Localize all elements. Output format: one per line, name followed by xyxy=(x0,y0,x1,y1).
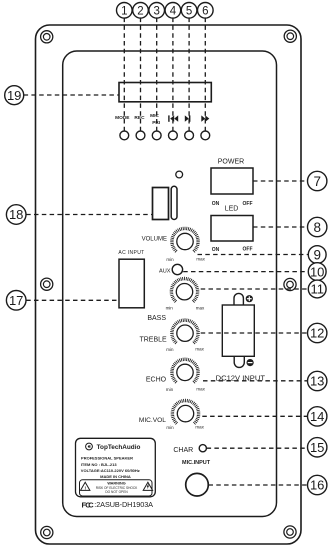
svg-text:MIC.INPUT: MIC.INPUT xyxy=(182,460,211,466)
DC plus terminal xyxy=(246,295,253,302)
knob ECHO xyxy=(170,358,200,384)
leader line 5 xyxy=(188,18,190,131)
leader line 1 xyxy=(123,18,125,131)
leader line 17 xyxy=(26,299,119,301)
push button 5 xyxy=(185,131,194,140)
svg-text:13: 13 xyxy=(310,374,324,389)
leader line 19 xyxy=(24,94,119,96)
svg-text:12: 12 xyxy=(310,326,324,341)
callout 14 xyxy=(308,407,327,426)
control button bar xyxy=(119,83,211,102)
svg-text:min: min xyxy=(166,425,174,430)
icon play xyxy=(185,115,191,121)
knob TREBLE xyxy=(170,318,200,344)
callout 5 xyxy=(181,3,197,19)
push button 4 xyxy=(169,131,178,140)
svg-text:max: max xyxy=(196,305,205,310)
svg-text:TopTechAudio: TopTechAudio xyxy=(97,444,141,451)
svg-text:MADE IN CHINA: MADE IN CHINA xyxy=(100,474,131,479)
leader line 11 xyxy=(201,288,308,290)
callout 19 xyxy=(5,86,24,105)
leader line 13 xyxy=(203,380,308,382)
icon previous track xyxy=(168,115,178,121)
USB port xyxy=(153,188,169,220)
callout 16 xyxy=(308,475,327,494)
leader line 15 xyxy=(207,447,308,449)
callout 6 xyxy=(198,3,214,19)
leader line 10 xyxy=(183,271,307,273)
svg-text:17: 17 xyxy=(9,293,23,308)
MIC INPUT jack xyxy=(186,473,209,496)
svg-text:DO NOT OPEN: DO NOT OPEN xyxy=(105,490,128,494)
callout 11 xyxy=(308,280,326,298)
callout 12 xyxy=(308,323,327,342)
svg-text:7: 7 xyxy=(313,174,321,189)
svg-text:11: 11 xyxy=(310,282,324,297)
svg-text:PROFESSIONAL SPEAKER: PROFESSIONAL SPEAKER xyxy=(81,456,133,461)
svg-text:min: min xyxy=(166,347,174,352)
svg-text:5: 5 xyxy=(186,5,192,17)
callout 3 xyxy=(149,3,165,19)
warning triangle left xyxy=(80,482,89,490)
leader line 7 xyxy=(253,180,308,182)
svg-text:TREBLE: TREBLE xyxy=(139,337,167,344)
leader line 8 xyxy=(253,226,308,228)
callout 2 xyxy=(133,3,149,19)
svg-text:AUX: AUX xyxy=(159,269,171,275)
svg-text:10: 10 xyxy=(310,264,324,279)
svg-text:POWER: POWER xyxy=(218,159,244,166)
leader line 2 xyxy=(140,18,142,131)
svg-text:16: 16 xyxy=(310,478,324,493)
knob VOLUME xyxy=(170,227,200,253)
leader line 14 xyxy=(202,415,308,417)
callout 4 xyxy=(165,3,181,19)
svg-text:PRI: PRI xyxy=(152,120,161,126)
callout 17 xyxy=(6,291,26,311)
warning box xyxy=(80,480,153,496)
push button 2 xyxy=(136,131,145,140)
svg-text:LED: LED xyxy=(225,206,239,213)
svg-text:max: max xyxy=(195,347,204,352)
svg-text:CHAR: CHAR xyxy=(173,447,193,454)
svg-text:max: max xyxy=(195,425,204,430)
leader line 16 xyxy=(209,484,309,486)
svg-text:min: min xyxy=(166,306,174,311)
svg-text:9: 9 xyxy=(313,247,321,262)
svg-text:OFF: OFF xyxy=(243,201,253,207)
icon next track xyxy=(201,115,209,121)
TopTech Audio logo xyxy=(86,443,93,450)
svg-text:BASS: BASS xyxy=(147,315,166,322)
indicator LED xyxy=(176,171,183,178)
push button 3 xyxy=(152,131,161,140)
svg-text:MIC: MIC xyxy=(150,113,159,119)
DC minus terminal xyxy=(247,359,254,366)
callout 15 xyxy=(308,438,327,457)
svg-text:AC INPUT: AC INPUT xyxy=(118,250,144,256)
CHAR LED xyxy=(199,445,206,452)
svg-text:2: 2 xyxy=(137,5,143,17)
knob BASS xyxy=(170,277,200,303)
svg-text:REC: REC xyxy=(134,115,145,121)
mounting screw 4 xyxy=(284,278,296,290)
svg-text:14: 14 xyxy=(310,409,324,424)
callout 7 xyxy=(308,171,327,190)
svg-text:VOLTAGE:AC110-220V 60/50Hz: VOLTAGE:AC110-220V 60/50Hz xyxy=(81,468,140,473)
leader line 12 xyxy=(201,332,308,334)
push button 1 xyxy=(120,131,129,140)
leader line 4 xyxy=(172,18,174,131)
svg-text:19: 19 xyxy=(7,88,21,103)
svg-text:MODE: MODE xyxy=(115,115,130,121)
label MIC PRI xyxy=(150,113,161,126)
svg-text:max: max xyxy=(196,257,205,262)
callout 9 xyxy=(308,246,326,264)
mounting screw 3 xyxy=(41,278,53,290)
svg-text:ON: ON xyxy=(212,201,220,207)
svg-text:ITEM NO : BJL-213: ITEM NO : BJL-213 xyxy=(81,462,118,467)
amplifier inner plate xyxy=(63,51,277,517)
svg-text:OFF: OFF xyxy=(243,247,253,253)
svg-text:max: max xyxy=(196,387,205,392)
AC INPUT socket xyxy=(119,259,144,308)
LED switch xyxy=(211,216,253,242)
push button 6 xyxy=(201,131,210,140)
svg-text:min: min xyxy=(166,387,174,392)
svg-text:6: 6 xyxy=(202,5,208,17)
mounting screw 1 xyxy=(41,31,53,43)
svg-text:ECHO: ECHO xyxy=(146,377,167,384)
svg-text:1: 1 xyxy=(121,5,127,17)
svg-text:4: 4 xyxy=(170,5,177,17)
callout 10 xyxy=(308,263,326,281)
svg-text:3: 3 xyxy=(153,5,159,17)
warning triangle right xyxy=(143,482,152,490)
mounting screw 6 xyxy=(284,526,296,538)
POWER switch xyxy=(211,168,253,194)
FCC ID text xyxy=(82,500,154,509)
SD card slot xyxy=(171,186,177,219)
svg-text:min: min xyxy=(166,257,174,262)
svg-text::2ASUB-DH1903A: :2ASUB-DH1903A xyxy=(94,500,153,509)
mounting screw 2 xyxy=(284,30,296,42)
svg-text:15: 15 xyxy=(310,440,324,455)
svg-text:8: 8 xyxy=(313,220,321,235)
brand label box xyxy=(76,438,156,497)
speaker back panel outer plate xyxy=(36,25,302,544)
mounting screw 5 xyxy=(41,526,53,538)
callout 1 xyxy=(117,3,133,19)
leader line 6 xyxy=(204,18,206,131)
AUX jack xyxy=(172,264,182,274)
leader line 9 xyxy=(198,254,309,256)
DC12V INPUT connector xyxy=(222,293,254,367)
svg-text:ON: ON xyxy=(212,247,220,253)
callout 8 xyxy=(308,217,327,236)
leader line 3 xyxy=(156,18,158,131)
svg-text:VOLUME: VOLUME xyxy=(142,236,167,242)
knob MIC.VOL xyxy=(171,399,201,425)
svg-text:18: 18 xyxy=(9,207,23,222)
leader line 18 xyxy=(26,214,152,216)
svg-text:MIC.VOL: MIC.VOL xyxy=(139,417,166,424)
callout 13 xyxy=(308,371,327,390)
callout 18 xyxy=(6,205,26,225)
